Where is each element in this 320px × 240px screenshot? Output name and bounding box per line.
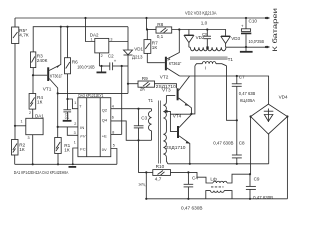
wire C2 ground stub — [101, 66, 103, 72]
svg-text:R9: R9 — [142, 76, 148, 81]
wire winding row to battery minus — [226, 46, 266, 48]
resistor R4 1K — [29, 94, 43, 110]
capacitor C4 — [181, 172, 203, 211]
svg-text:DA3 КР1211ЕУ1: DA3 КР1211ЕУ1 — [78, 93, 103, 98]
node dot C7 top — [236, 75, 238, 77]
node dot VT1 collector — [57, 92, 59, 94]
wire C9 leads — [249, 174, 251, 199]
diode VD1 D213 — [124, 46, 144, 93]
wire bridge right output — [286, 117, 288, 199]
bridge rectifier VD4 KTs405A — [240, 94, 288, 134]
svg-text:I: I — [205, 65, 206, 70]
svg-text:0V: 0V — [102, 147, 107, 152]
terminal battery plus — [265, 17, 270, 20]
diode VD3 — [221, 36, 241, 47]
svg-text:С8: С8 — [239, 140, 245, 145]
transistor VT2 KT361G — [147, 30, 182, 80]
node dot bridge right — [286, 115, 288, 117]
wire bottom-left ground rail — [15, 163, 117, 165]
resistor R3 240K — [31, 52, 48, 68]
node dot VT2 emitter at rail2 — [178, 28, 180, 30]
wire C1 node jog to DA3 pin1 — [68, 99, 78, 109]
svg-text:С2: С2 — [108, 54, 114, 59]
wire node B to winding II — [139, 139, 152, 141]
wire winding I left vertical — [191, 66, 195, 114]
svg-text:VD2 VD3 КД213А: VD2 VD3 КД213А — [185, 10, 217, 15]
svg-text:DA1 КР142ЕН12А DA2 КР142ЕН8А: DA1 КР142ЕН12А DA2 КР142ЕН8А — [14, 170, 69, 175]
svg-text:VT4: VT4 — [173, 113, 182, 118]
svg-text:3: 3 — [74, 131, 76, 135]
wire VT1 base node vertical — [32, 75, 34, 93]
node dot R1 at rail — [57, 163, 59, 165]
terminal battery minus — [265, 46, 270, 49]
wire rail corner to R5 — [14, 18, 16, 27]
svg-text:Д213: Д213 — [132, 55, 143, 60]
ground C1 — [63, 120, 72, 122]
node dot C4 bottom — [187, 198, 189, 200]
node dot VT3 emitter VT4 collector — [190, 113, 192, 115]
wire winding I right vertical — [227, 66, 237, 121]
node dot DA2 branch on top rail — [84, 17, 86, 19]
svg-text:IN: IN — [80, 125, 84, 130]
svg-text:С7: С7 — [239, 75, 245, 80]
node dot C1 — [66, 98, 68, 100]
svg-text:Q4: Q4 — [102, 118, 108, 123]
wire L1 right to C9 — [227, 174, 250, 183]
svg-text:VD3: VD3 — [231, 36, 240, 41]
svg-text:1: 1 — [74, 140, 76, 144]
node dot bottom rail left end — [145, 198, 147, 200]
svg-text:VT2: VT2 — [160, 75, 169, 80]
svg-text:5: 5 — [113, 143, 115, 147]
node dot C4 branch top — [145, 171, 147, 173]
svg-text:3: 3 — [28, 136, 30, 140]
svg-text:0,1: 0,1 — [65, 116, 70, 120]
svg-text:С9: С9 — [254, 177, 260, 182]
svg-text:VT1: VT1 — [43, 87, 52, 92]
chip DA3 KR1211EU1 — [74, 93, 115, 157]
svg-text:С3: С3 — [141, 115, 147, 120]
chip DA2 — [90, 32, 113, 57]
wire DA3 pin2 IN — [58, 126, 78, 128]
wire L2 right to bottom rail — [224, 191, 232, 199]
transformer primary clamp winding row — [189, 46, 226, 50]
capacitor C8 0,47 630V — [213, 140, 245, 163]
ground chassis at battery minus — [240, 47, 253, 52]
svg-text:2: 2 — [101, 54, 103, 58]
node dot at main rail — [145, 17, 147, 19]
capacitor C7 0,47 63V — [232, 75, 256, 155]
resistor R6 — [65, 58, 79, 74]
svg-text:240К: 240К — [37, 58, 48, 63]
wire DA3 FC pin — [73, 148, 78, 164]
node dot bridge left — [250, 115, 252, 117]
node dot C2 right branch — [121, 65, 123, 67]
node dot C9 top — [249, 173, 251, 175]
capacitor C2 100,0*16V — [77, 54, 128, 71]
inductor core dashes — [211, 186, 224, 188]
node dot C4 top — [187, 171, 189, 173]
svg-text:VT3: VT3 — [162, 88, 171, 93]
transistor VT4 2SD1710 — [166, 113, 192, 164]
wire bridge bottom vertex riser — [268, 134, 270, 164]
resistor R5* 4,7K — [12, 27, 29, 44]
svg-text:С10: С10 — [249, 18, 258, 23]
wire R7 top to rail2 — [146, 30, 148, 40]
wire collector node down to R1 node — [57, 93, 59, 137]
svg-text:FC: FC — [80, 146, 85, 151]
svg-text:FV: FV — [80, 134, 85, 139]
svg-text:0,47 63В: 0,47 63В — [239, 91, 256, 96]
node dot C2 left — [100, 65, 102, 67]
svg-text:КТ361Г: КТ361Г — [50, 74, 63, 79]
node dot FC at rail — [72, 163, 74, 165]
wire R3 bottom to base node — [32, 68, 34, 76]
node dot VT1 base — [32, 74, 34, 76]
svg-text:1: 1 — [74, 101, 76, 105]
capacitor C9 0,47 630V — [246, 177, 273, 201]
diode VD2 — [184, 30, 205, 48]
transistor VT1 KT361G — [33, 27, 63, 94]
wire R4 to DA1 — [32, 109, 34, 118]
svg-text:0,47 630В: 0,47 630В — [181, 206, 203, 212]
svg-text:0,47 630В: 0,47 630В — [253, 195, 273, 200]
node dot DA1 pin3 at rail — [32, 163, 34, 165]
node dot secondary at C7 line — [236, 119, 238, 121]
wire bottom output rail — [146, 198, 287, 200]
wire DA1 input — [15, 120, 26, 126]
svg-text:1кГц: 1кГц — [138, 183, 145, 187]
resistor R10 4,7 — [146, 164, 188, 181]
svg-text:8: 8 — [112, 130, 114, 134]
wire tap branch to VT4 base — [170, 114, 177, 131]
wire main rail to rail2 — [146, 18, 148, 30]
node dot C10 top — [245, 17, 247, 19]
wire DA1 pin3 down — [32, 135, 34, 165]
wire bridge left output — [250, 117, 252, 175]
node dot R6 top — [66, 26, 68, 28]
node dot VT4 emitter at bottom line — [189, 163, 191, 165]
wire R2 to ground rail — [14, 155, 16, 164]
svg-text:R8: R8 — [157, 22, 163, 27]
capacitor C1 0,1 — [63, 99, 71, 120]
svg-text:1К: 1К — [64, 147, 70, 152]
svg-text:4,7: 4,7 — [155, 176, 162, 181]
wire R1 bottom to rail — [57, 154, 59, 165]
node dot R9 branch — [127, 83, 129, 85]
svg-text:6: 6 — [112, 116, 114, 120]
node dot C3 bottom — [137, 139, 139, 141]
wire C4 node vertical — [145, 172, 147, 198]
svg-text:2: 2 — [29, 111, 31, 115]
svg-text:1: 1 — [91, 37, 93, 41]
wire rail down to DA2 pin1 — [86, 18, 95, 42]
svg-text:1К: 1К — [152, 45, 158, 50]
svg-text:Т1: Т1 — [228, 57, 234, 62]
text 1k0 note — [138, 183, 145, 187]
svg-text:КЦ405А: КЦ405А — [240, 98, 256, 103]
svg-text:0,47 630В: 0,47 630В — [213, 141, 233, 146]
wire R6 bottom to C1 node — [67, 74, 69, 99]
wire collector node horizontal to VD1 — [58, 92, 128, 94]
svg-text:4,7К: 4,7К — [19, 32, 29, 37]
transformer T1 core horizontal — [190, 57, 228, 59]
wire tap to collector node — [166, 111, 191, 114]
svg-text:4: 4 — [112, 105, 114, 109]
svg-text:Т1: Т1 — [148, 98, 154, 103]
node dot C10 bottom — [245, 46, 247, 48]
wire top +12V rail — [15, 17, 266, 19]
resistor R2 1K — [12, 140, 26, 156]
resistor R8 0,1 — [156, 22, 172, 39]
capacitor C10 10,0*25V — [241, 18, 264, 47]
capacitor C5 1,0 — [201, 21, 211, 48]
node dot C3 top — [137, 108, 139, 110]
node dot C9 bottom — [249, 198, 251, 200]
node dot left rail to DA1 — [14, 125, 16, 127]
svg-text:VD1: VD1 — [134, 46, 143, 51]
node dot C8 bottom — [236, 163, 238, 165]
inductor L filter winding 1 — [210, 177, 227, 184]
wire C3 bottom to R10 node — [139, 140, 147, 172]
ground C2 — [97, 71, 107, 73]
svg-text:Lф: Lф — [210, 177, 217, 182]
svg-text:0,1: 0,1 — [157, 34, 164, 39]
svg-text:2SД1710: 2SД1710 — [166, 145, 187, 150]
text caption DA1 DA2 types — [14, 170, 69, 175]
resistor R1 1K — [55, 138, 71, 154]
wire C4 node to filter staircase — [188, 172, 213, 183]
svg-text:1: 1 — [21, 120, 23, 124]
svg-text:VD4: VD4 — [279, 94, 288, 99]
svg-text:R10: R10 — [156, 164, 165, 169]
svg-text:2К: 2К — [140, 86, 146, 91]
wire DA3 pin5 0V to ground rail — [111, 149, 117, 165]
wire rail2 right of R8 — [172, 30, 226, 36]
transformer T1 core vertical — [159, 101, 161, 164]
svg-text:3: 3 — [110, 37, 112, 41]
wire winding top to VT3 base — [166, 95, 175, 97]
wire FV branch — [67, 127, 78, 135]
svg-text:1,0: 1,0 — [201, 21, 208, 26]
wire L2 left to bottom rail — [206, 191, 211, 199]
transformer T1 winding I — [195, 57, 234, 70]
transformer T1 winding III right lower — [163, 131, 167, 164]
svg-text:1К: 1К — [19, 147, 25, 152]
svg-text:100,0*16В: 100,0*16В — [77, 64, 95, 69]
text VD2 VD3 KD213A — [185, 10, 217, 15]
text K batarei — [271, 8, 279, 52]
wire winding III bottom rail — [168, 163, 269, 165]
svg-text:КТ361Г: КТ361Г — [169, 61, 182, 66]
wire collectors HV line — [180, 76, 269, 104]
resistor R7 1K — [144, 40, 158, 63]
node dot rail2 start — [146, 28, 148, 30]
wire VD1 branch down — [127, 27, 129, 50]
wire DA2 pin2 down — [98, 53, 100, 66]
svg-text:К батареи: К батареи — [271, 8, 279, 52]
chip DA1 — [26, 111, 44, 140]
inductor L filter winding 2 — [211, 191, 225, 193]
capacitor C3 — [134, 109, 148, 141]
wire +E supply vertical — [121, 66, 123, 134]
wire left vertical R5 to R2 — [14, 44, 16, 140]
wire DA3 Q4 pin6 path — [111, 121, 139, 140]
svg-text:DA2: DA2 — [90, 32, 99, 37]
wire R3 top to emitter rail — [33, 27, 128, 52]
svg-text:С5: С5 — [202, 32, 208, 37]
svg-text:DA1: DA1 — [35, 113, 44, 118]
transformer T1 winding II left — [148, 98, 154, 141]
svg-text:10,0*25В: 10,0*25В — [249, 39, 265, 44]
wire DA2 pin3 to VD1 — [109, 41, 128, 43]
ground — [69, 166, 77, 168]
svg-text:Q2: Q2 — [102, 107, 108, 112]
svg-text:+Е: +Е — [102, 134, 107, 139]
wire R6 top to emitter rail — [67, 27, 69, 58]
node square winding tap — [165, 110, 167, 112]
svg-text:2: 2 — [74, 122, 76, 126]
resistor R9 2K — [128, 76, 177, 91]
wire DA3 Q2 pin4 to node A — [111, 108, 152, 110]
svg-text:1К: 1К — [37, 100, 43, 105]
node dot VT1 emitter at rail — [60, 26, 62, 28]
wire DA3 pin8 to supply — [111, 133, 122, 135]
wire rail2 left of R8 — [147, 29, 156, 31]
transformer T1 winding III right upper — [163, 96, 166, 132]
node dot R1 top FV — [57, 126, 59, 128]
transistor VT3 2SD1710 — [156, 76, 192, 114]
node dot C5 top — [206, 28, 208, 30]
